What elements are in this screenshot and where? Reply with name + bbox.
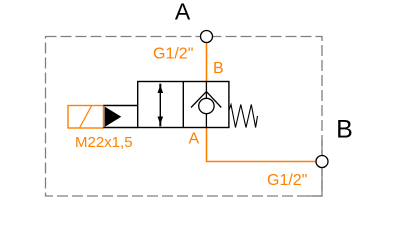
svg-text:B: B [336,116,353,144]
svg-text:G1/2": G1/2" [267,172,307,189]
svg-text:B: B [213,60,224,77]
svg-text:A: A [189,131,200,148]
svg-text:G1/2": G1/2" [153,46,193,63]
svg-text:A: A [175,0,191,25]
svg-text:M22x1,5: M22x1,5 [75,134,133,151]
